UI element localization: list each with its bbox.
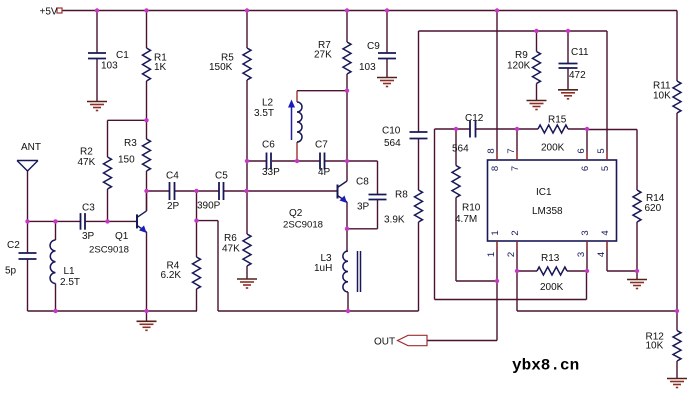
svg-text:C4: C4 (166, 171, 179, 182)
svg-text:10K: 10K (653, 91, 671, 102)
svg-text:OUT: OUT (374, 337, 395, 348)
svg-text:IC1: IC1 (536, 187, 552, 198)
svg-text:103: 103 (101, 61, 118, 72)
svg-text:R10: R10 (462, 203, 481, 214)
svg-text:4P: 4P (318, 167, 331, 178)
svg-text:10K: 10K (646, 341, 664, 352)
svg-text:3.5T: 3.5T (254, 108, 274, 119)
svg-text:C3: C3 (82, 203, 95, 214)
svg-text:4: 4 (596, 252, 607, 257)
svg-text:C5: C5 (215, 171, 228, 182)
svg-text:C6: C6 (262, 140, 275, 151)
svg-text:390P: 390P (197, 201, 221, 212)
svg-text:C9: C9 (367, 41, 380, 52)
svg-text:1K: 1K (154, 62, 167, 73)
svg-text:C11: C11 (571, 47, 589, 58)
svg-text:8: 8 (490, 166, 501, 171)
svg-text:R3: R3 (124, 138, 137, 149)
svg-text:7: 7 (510, 166, 521, 171)
svg-text:C10: C10 (382, 126, 401, 137)
svg-text:3: 3 (576, 252, 587, 257)
svg-text:120K: 120K (507, 61, 531, 72)
svg-text:LM358: LM358 (532, 206, 563, 217)
svg-text:C12: C12 (465, 113, 484, 124)
svg-text:L1: L1 (64, 266, 76, 277)
svg-text:564: 564 (384, 138, 401, 149)
svg-text:5: 5 (596, 148, 607, 153)
svg-text:2: 2 (506, 252, 517, 257)
svg-text:2: 2 (510, 230, 521, 235)
svg-text:150K: 150K (209, 62, 233, 73)
svg-text:C2: C2 (7, 240, 20, 251)
svg-text:3: 3 (580, 230, 591, 235)
svg-text:R9: R9 (515, 50, 528, 61)
svg-text:5: 5 (600, 166, 611, 171)
svg-text:200K: 200K (540, 282, 564, 293)
svg-text:L2: L2 (262, 98, 274, 109)
svg-text:1: 1 (490, 230, 501, 235)
svg-text:ANT: ANT (21, 142, 41, 153)
svg-text:+5V: +5V (40, 7, 58, 18)
svg-text:C1: C1 (116, 50, 129, 61)
svg-text:2.5T: 2.5T (60, 277, 80, 288)
svg-text:6: 6 (576, 148, 587, 153)
svg-text:150: 150 (118, 155, 135, 166)
svg-text:R15: R15 (548, 115, 567, 126)
svg-text:R2: R2 (80, 147, 93, 158)
svg-text:47K: 47K (78, 157, 96, 168)
svg-text:C7: C7 (315, 140, 328, 151)
svg-text:2P: 2P (167, 201, 180, 212)
svg-text:2SC9018: 2SC9018 (283, 220, 323, 231)
svg-text:6: 6 (580, 166, 591, 171)
svg-text:620: 620 (645, 203, 662, 214)
svg-text:27K: 27K (314, 50, 332, 61)
svg-text:6.2K: 6.2K (161, 270, 182, 281)
svg-text:R8: R8 (395, 190, 408, 201)
svg-text:Q1: Q1 (115, 231, 129, 242)
svg-text:1uH: 1uH (314, 263, 332, 274)
svg-text:4: 4 (600, 230, 611, 235)
svg-text:472: 472 (569, 70, 586, 81)
svg-text:47K: 47K (222, 244, 240, 255)
svg-text:C8: C8 (356, 177, 369, 188)
svg-text:1: 1 (486, 252, 497, 257)
svg-text:7: 7 (506, 148, 517, 153)
svg-text:R13: R13 (541, 253, 560, 264)
svg-text:200K: 200K (541, 143, 565, 154)
svg-text:Q2: Q2 (289, 208, 303, 219)
svg-text:3P: 3P (357, 202, 370, 213)
svg-text:2SC9018: 2SC9018 (89, 245, 129, 256)
svg-text:564: 564 (452, 144, 469, 155)
svg-text:33P: 33P (262, 167, 280, 178)
svg-text:4.7M: 4.7M (455, 214, 477, 225)
svg-text:3P: 3P (82, 231, 95, 242)
svg-text:5p: 5p (5, 266, 17, 277)
svg-text:R6: R6 (224, 233, 237, 244)
svg-text:ybx8.cn: ybx8.cn (512, 357, 579, 375)
svg-text:103: 103 (359, 62, 376, 73)
svg-text:3.9K: 3.9K (384, 215, 405, 226)
svg-text:8: 8 (486, 148, 497, 153)
